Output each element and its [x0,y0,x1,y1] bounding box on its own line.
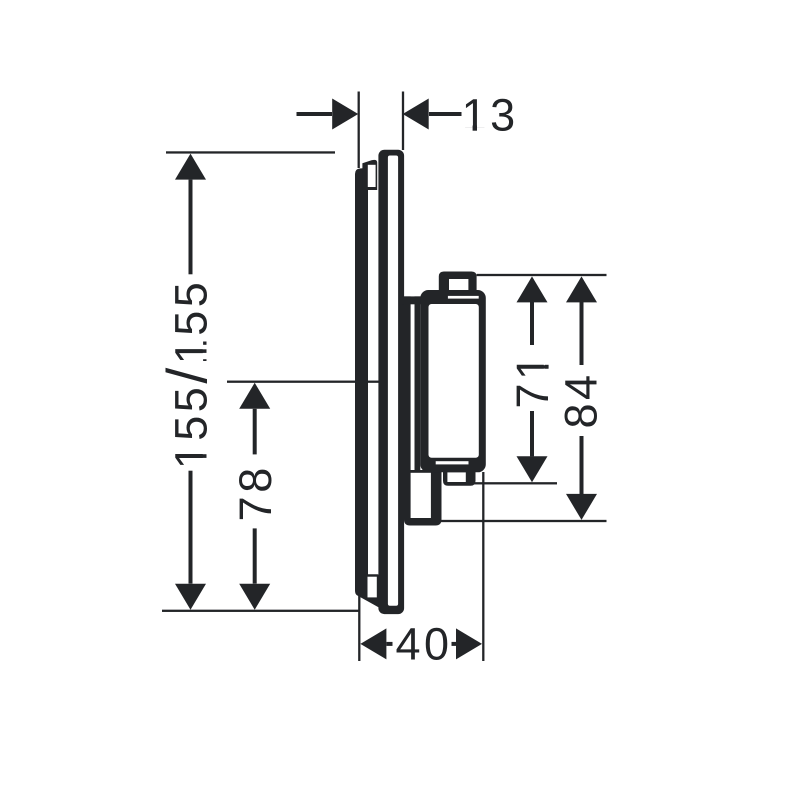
extension line: wall plane vertical (dim 40 left) [358,594,360,661]
dimension line 155/155 upper segment [189,180,193,275]
arrowhead dim 40 pointing left [360,628,386,659]
glyph patches: footless "1" digits [464,127,486,132]
connector sleeve bar [415,296,421,472]
arrowhead dim 13 pointing right [332,99,358,130]
dimension line 40 left stub [387,642,393,646]
arrowhead dim 40 pointing right [456,628,482,659]
bottom knob [443,467,476,486]
arrowhead dim 71 down [517,456,548,482]
arrowhead dim 78 up [239,383,270,409]
plate bottom slant edge [355,583,386,608]
extension line: valve bottom horizontal (dim 84 bottom) [439,520,607,522]
svg-text:155/155: 155/155 [156,279,220,470]
valve body below handle [404,470,442,526]
top mounting clip [362,160,377,190]
extension line: handle bottom horizontal (dim 71 bottom) [474,482,557,484]
arrowhead dim 84 down [566,494,597,520]
extension line: handle front vertical (dim 40 right) [482,472,484,661]
dimension line 71 upper segment [530,302,534,345]
svg-text:40: 40 [395,619,452,670]
escutcheon plate (front, side view) [378,150,404,614]
connector top bar [402,296,421,304]
extension line: handle axis horizontal (dim 78 top) [227,381,379,383]
dimension line 13 right segment [429,112,462,116]
bottom mounting clip [364,574,379,599]
arrowhead dim 155/155 down [175,584,206,610]
handle cap seam bottom [436,461,469,464]
arrowhead dim 155/155 up [175,154,206,180]
arrowhead dim 13 pointing left [403,99,429,130]
svg-text:71: 71 [507,351,558,408]
svg-text:13: 13 [462,90,519,141]
extension line: knob top horizontal (dims 71 and 84 top) [477,274,607,276]
arrowhead dim 84 up [566,276,597,302]
top knob [439,272,477,291]
dimension line 78 lower segment [253,528,257,583]
handle cap seam top [448,296,479,299]
arrowhead dim 78 down [239,584,270,610]
extension line: plate front vertical (dim 13 right) [402,92,404,151]
dimension line 84 upper segment [580,302,584,365]
extension line: plate top horizontal (dim 155/155) [166,151,335,153]
dimension line 155/155 lower segment [189,471,193,584]
wall flange (plate back, side view) [355,168,368,586]
extension line: plate bottom horizontal (dims 155/155 and 78) [162,610,359,612]
handle body [420,290,486,472]
dimension line 40 right stub [452,642,457,646]
dimension line 78 upper segment [253,409,257,455]
extension line: plate back vertical (dim 13 left) [358,92,360,169]
arrowhead dim 71 up [517,276,548,302]
dimension line 13 left segment [297,112,333,116]
svg-text:78: 78 [230,464,281,521]
svg-text:84: 84 [556,371,607,428]
dimension line 71 lower segment [530,411,534,456]
connector flange bar [404,296,411,518]
dimension line 84 lower segment [580,436,584,494]
